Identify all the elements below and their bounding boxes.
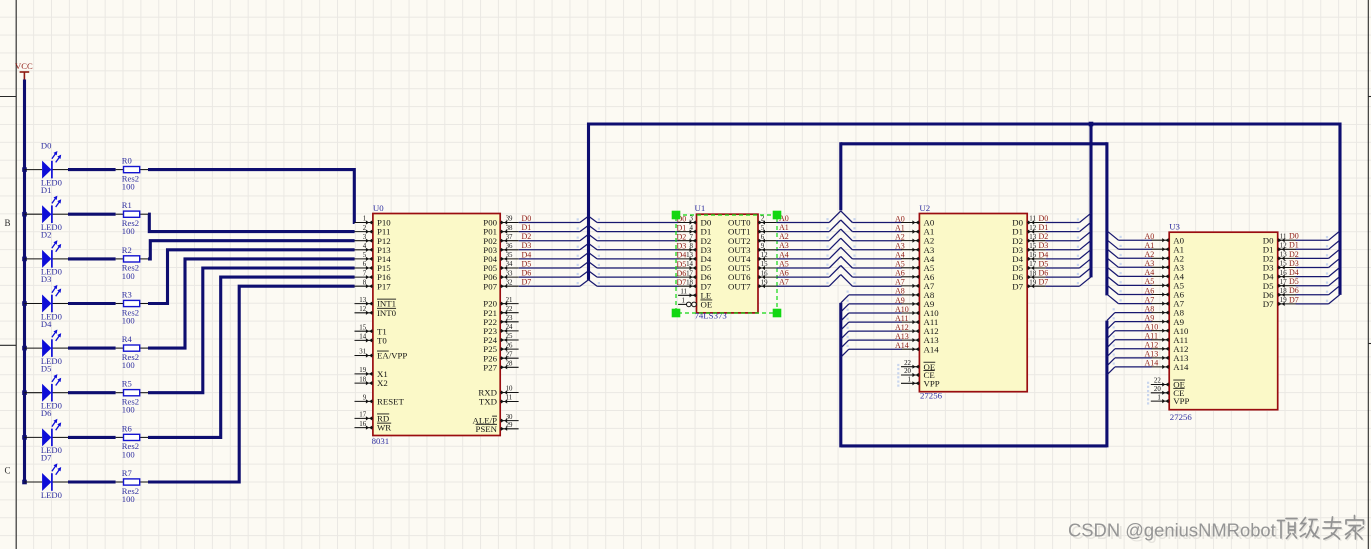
svg-text:VPP: VPP <box>1173 396 1189 406</box>
svg-text:2: 2 <box>761 216 765 223</box>
wire resistor R5 to U0 pin P15 <box>148 268 355 393</box>
svg-text:A14: A14 <box>1173 362 1189 372</box>
wire VCC vertical rail <box>23 80 26 483</box>
wires D0-D7 from U2 to data bus <box>1046 213 1091 286</box>
svg-text:17: 17 <box>686 270 693 277</box>
U2 pins A0-A14 <box>901 218 939 355</box>
svg-text:D1: D1 <box>677 223 687 232</box>
svg-text:D0: D0 <box>1039 214 1049 223</box>
svg-text:A2: A2 <box>779 232 789 241</box>
bus wire A0-A14 left vertical lower <box>839 303 842 448</box>
svg-text:20: 20 <box>1154 386 1161 393</box>
svg-text:A6: A6 <box>779 269 789 278</box>
svg-text:D3: D3 <box>41 274 52 284</box>
svg-text:D6: D6 <box>1039 269 1049 278</box>
U2 value 27256 <box>920 391 943 401</box>
svg-text:36: 36 <box>506 243 513 250</box>
resistor R3 (Res2 100) <box>116 289 148 325</box>
svg-text:6: 6 <box>761 234 765 241</box>
svg-text:1: 1 <box>1157 394 1161 401</box>
svg-text:22: 22 <box>506 306 513 313</box>
svg-text:WR: WR <box>377 423 391 433</box>
svg-text:D7: D7 <box>1039 278 1049 287</box>
bus wire D0-D7 vertical at U3 <box>1338 123 1341 295</box>
bus wire A0-A14 left vertical upper <box>839 142 842 210</box>
svg-text:A7: A7 <box>895 278 905 287</box>
svg-text:D7: D7 <box>41 453 52 463</box>
U0 control pins INT1 INT0 T1 T0 EA/VPP X1 X2 RESET RD WR <box>355 297 408 433</box>
latch U1 74LS373 body <box>697 214 759 313</box>
U2 pins OE CE VPP <box>897 360 940 389</box>
wire resistor R2 to U0 pin P12 <box>148 241 355 259</box>
svg-text:D5: D5 <box>1039 259 1049 268</box>
LED D3 (LED0) <box>25 274 69 321</box>
svg-text:18: 18 <box>1280 288 1287 295</box>
svg-text:12: 12 <box>359 306 366 313</box>
U2 designator <box>919 203 930 213</box>
svg-text:D3: D3 <box>1039 241 1049 250</box>
svg-text:6: 6 <box>363 261 367 268</box>
net labels A0-A14 at U2 <box>895 214 909 350</box>
svg-text:R5: R5 <box>122 379 132 389</box>
svg-text:D4: D4 <box>1039 250 1049 259</box>
bus wire A0-A14 bottom <box>841 444 1107 447</box>
svg-text:A1: A1 <box>895 223 905 232</box>
svg-text:74LS373: 74LS373 <box>695 311 728 321</box>
svg-text:D7: D7 <box>677 278 687 287</box>
U0 pins 39-32 P00-P07 <box>483 216 518 292</box>
svg-text:33: 33 <box>506 270 513 277</box>
svg-text:34: 34 <box>506 261 513 268</box>
svg-text:D5: D5 <box>522 259 532 268</box>
svg-text:R7: R7 <box>122 468 133 478</box>
LED D6 (LED0) <box>25 408 69 455</box>
net labels D0-D7 at U3 <box>1289 232 1299 305</box>
svg-text:R0: R0 <box>122 156 132 166</box>
LED D2 (LED0) <box>25 230 69 277</box>
wires A0-A7 from address bus to U3 <box>1107 231 1152 304</box>
junction dots on VCC rail <box>22 167 27 484</box>
net labels A0-A14 at U3 <box>1145 232 1159 368</box>
svg-text:13: 13 <box>359 297 366 304</box>
wire resistor R7 to U0 pin P17 <box>148 286 355 482</box>
resistor R6 (Res2 100) <box>116 423 148 459</box>
svg-text:19: 19 <box>1029 279 1036 286</box>
wire LED D0 cathode to resistor R0 <box>68 168 116 171</box>
svg-text:U2: U2 <box>919 203 930 213</box>
svg-text:D0: D0 <box>522 214 532 223</box>
wire LED D4 cathode to resistor R4 <box>68 347 116 350</box>
U0 pins RXD TXD ALE/P PSEN <box>473 386 519 434</box>
U0 pins 21-28 P20-P27 <box>483 297 518 373</box>
svg-text:13: 13 <box>1029 234 1036 241</box>
wires A8-A14 from address bus to U3 <box>1107 308 1152 375</box>
svg-text:R3: R3 <box>122 289 132 299</box>
svg-text:100: 100 <box>122 494 135 504</box>
svg-text:D6: D6 <box>677 269 687 278</box>
svg-text:23: 23 <box>506 315 513 322</box>
svg-text:D6: D6 <box>522 269 532 278</box>
svg-text:13: 13 <box>686 252 693 259</box>
svg-text:P27: P27 <box>483 362 497 372</box>
svg-text:C: C <box>5 466 11 476</box>
junction data bus at U2 branch <box>1089 122 1094 127</box>
svg-text:A5: A5 <box>779 259 789 268</box>
svg-text:D1: D1 <box>41 185 52 195</box>
svg-text:A14: A14 <box>924 344 940 354</box>
wires A8-A14 from address bus to U2 <box>841 291 902 358</box>
svg-text:22: 22 <box>904 360 911 367</box>
svg-text:24: 24 <box>506 324 513 331</box>
svg-text:29: 29 <box>506 422 513 429</box>
bus wire A0-A14 right vertical upper <box>1105 142 1108 295</box>
svg-text:11: 11 <box>506 395 513 402</box>
U1 pins LE and OE <box>678 289 712 310</box>
svg-text:A3: A3 <box>895 242 905 251</box>
svg-text:25: 25 <box>506 333 513 340</box>
svg-text:18: 18 <box>1029 270 1036 277</box>
eprom U2 27256 body <box>919 214 1027 392</box>
svg-text:P17: P17 <box>377 281 391 291</box>
svg-text:1: 1 <box>682 298 686 305</box>
svg-text:17: 17 <box>1029 261 1036 268</box>
svg-text:R2: R2 <box>122 245 132 255</box>
LED D4 (LED0) <box>25 319 69 366</box>
svg-text:35: 35 <box>506 252 513 259</box>
resistor R1 (Res2 100) <box>116 200 148 236</box>
wires A0-A7 from U1 outputs across address bus to U2 <box>776 211 901 286</box>
svg-text:20: 20 <box>904 368 911 375</box>
svg-text:D5: D5 <box>677 260 687 269</box>
wire resistor R0 to U0 pin P10 <box>148 170 355 223</box>
svg-text:D4: D4 <box>1289 268 1299 277</box>
resistor R5 (Res2 100) <box>116 379 148 415</box>
svg-text:D2: D2 <box>522 232 532 241</box>
bus wire A0-A14 right vertical lower <box>1105 321 1108 448</box>
svg-text:OUT7: OUT7 <box>728 281 751 291</box>
svg-text:16: 16 <box>1280 270 1287 277</box>
svg-text:100: 100 <box>122 182 135 192</box>
svg-text:D7: D7 <box>1012 281 1023 291</box>
svg-text:U3: U3 <box>1169 222 1180 232</box>
LED D7 (LED0) <box>25 453 69 500</box>
U1 designator <box>695 203 706 213</box>
svg-text:A0: A0 <box>895 214 905 223</box>
svg-text:18: 18 <box>686 279 693 286</box>
watermark chinese characters ding ji zhuan jia <box>1278 516 1365 541</box>
svg-text:D1: D1 <box>1039 223 1049 232</box>
svg-text:17: 17 <box>359 412 366 419</box>
svg-text:13: 13 <box>1280 252 1287 259</box>
svg-text:11: 11 <box>1029 216 1036 223</box>
svg-text:12: 12 <box>1280 243 1287 250</box>
svg-text:100: 100 <box>122 449 135 459</box>
svg-text:D6: D6 <box>41 408 52 418</box>
svg-text:31: 31 <box>359 349 366 356</box>
net labels A0-A7 at U1 outputs <box>779 214 789 287</box>
net labels D0-D7 at U2 <box>1039 214 1049 287</box>
svg-text:2: 2 <box>363 225 367 232</box>
svg-text:P07: P07 <box>483 281 497 291</box>
svg-text:8031: 8031 <box>372 436 390 446</box>
svg-text:26: 26 <box>506 342 513 349</box>
wire LED D5 cathode to resistor R5 <box>68 391 116 394</box>
svg-text:17: 17 <box>1280 279 1287 286</box>
watermark CSDN @geniusNMRobot <box>1068 520 1279 544</box>
svg-text:3: 3 <box>363 234 367 241</box>
wire LED D6 cathode to resistor R6 <box>68 436 116 439</box>
svg-text:16: 16 <box>1029 252 1036 259</box>
U2 pins D0-D7 <box>1012 216 1045 292</box>
svg-text:INT0: INT0 <box>377 308 397 318</box>
svg-text:A2: A2 <box>895 232 905 241</box>
net labels D0-D7 at U1 inputs <box>677 214 687 287</box>
mcu U0 8031 body <box>373 214 500 436</box>
svg-text:VCC: VCC <box>15 61 33 71</box>
svg-text:D0: D0 <box>41 140 52 150</box>
svg-text:15: 15 <box>359 324 366 331</box>
svg-text:8: 8 <box>690 243 694 250</box>
svg-text:A6: A6 <box>895 269 905 278</box>
svg-text:3: 3 <box>690 216 694 223</box>
svg-text:19: 19 <box>761 279 768 286</box>
svg-text:RESET: RESET <box>377 397 405 407</box>
svg-text:D0: D0 <box>1289 232 1299 241</box>
eprom U3 27256 body <box>1169 232 1278 410</box>
svg-text:15: 15 <box>1029 243 1036 250</box>
resistor R7 (Res2 100) <box>116 468 148 504</box>
LED D5 (LED0) <box>25 363 69 410</box>
svg-text:D4: D4 <box>677 251 687 260</box>
svg-text:D6: D6 <box>1289 286 1299 295</box>
resistor R0 (Res2 100) <box>116 156 148 192</box>
svg-text:30: 30 <box>506 414 513 421</box>
svg-text:100: 100 <box>122 226 135 236</box>
svg-text:D4: D4 <box>41 319 52 329</box>
svg-text:T0: T0 <box>377 336 387 346</box>
svg-text:9: 9 <box>363 395 367 402</box>
svg-text:D2: D2 <box>1289 250 1299 259</box>
svg-text:D7: D7 <box>1263 299 1274 309</box>
svg-text:1: 1 <box>908 377 912 384</box>
svg-text:12: 12 <box>761 252 768 259</box>
svg-text:A4: A4 <box>779 250 789 259</box>
svg-text:PSEN: PSEN <box>475 424 497 434</box>
svg-text:A1: A1 <box>779 223 789 232</box>
svg-text:D7: D7 <box>522 278 532 287</box>
svg-text:A7: A7 <box>779 278 789 287</box>
svg-text:16: 16 <box>761 270 768 277</box>
svg-text:14: 14 <box>359 334 366 341</box>
U3 designator <box>1169 222 1180 232</box>
bus wire D0-D7 horizontal top <box>589 122 1341 125</box>
svg-text:18: 18 <box>359 376 366 383</box>
wire LED D1 cathode to resistor R1 <box>68 213 116 216</box>
svg-text:R1: R1 <box>122 200 132 210</box>
svg-text:32: 32 <box>506 279 513 286</box>
svg-text:1: 1 <box>363 216 367 223</box>
U3 pins OE CE VPP <box>1147 378 1190 407</box>
svg-text:22: 22 <box>1154 378 1161 385</box>
U3 pins D0-D7 <box>1263 233 1296 309</box>
U3 value 27256 <box>1170 412 1193 422</box>
resistor R2 (Res2 100) <box>116 245 148 281</box>
LED D0 (LED0) <box>25 140 69 187</box>
svg-text:19: 19 <box>1280 297 1287 304</box>
compile marks at address bus tents <box>826 218 855 284</box>
svg-text:D1: D1 <box>522 223 532 232</box>
svg-text:CSDN @geniusNMRobot: CSDN @geniusNMRobot <box>1068 520 1276 541</box>
svg-text:15: 15 <box>1280 261 1287 268</box>
wire resistor R1 to U0 pin P11 <box>148 214 355 231</box>
svg-text:A3: A3 <box>779 241 789 250</box>
U0 value 8031 <box>372 436 390 446</box>
svg-text:9: 9 <box>761 243 765 250</box>
svg-text:10: 10 <box>506 386 513 393</box>
svg-text:21: 21 <box>506 297 513 304</box>
net labels D0-D7 at U0 port0 <box>522 214 532 287</box>
svg-text:D1: D1 <box>1289 241 1299 250</box>
svg-text:D7: D7 <box>1289 295 1299 304</box>
svg-text:27: 27 <box>506 351 513 358</box>
bus wire A0-A14 top <box>841 142 1107 145</box>
wire LED D7 cathode to resistor R7 <box>68 480 116 483</box>
svg-text:16: 16 <box>359 421 366 428</box>
svg-text:D2: D2 <box>677 233 687 242</box>
svg-text:D5: D5 <box>41 363 52 373</box>
U0 designator <box>373 203 384 213</box>
svg-text:OE: OE <box>701 300 713 310</box>
resistor R4 (Res2 100) <box>116 334 148 370</box>
U0 pins 1-8 P10-P17 <box>355 216 392 292</box>
svg-text:D3: D3 <box>1289 259 1299 268</box>
svg-text:R4: R4 <box>122 334 133 344</box>
U3 pins A0-A14 <box>1151 235 1189 372</box>
svg-text:U0: U0 <box>373 203 384 213</box>
svg-text:39: 39 <box>506 216 513 223</box>
svg-text:11: 11 <box>680 289 687 296</box>
svg-text:100: 100 <box>122 405 135 415</box>
wires data bus entries to U1 D inputs <box>589 216 679 286</box>
svg-text:19: 19 <box>359 367 366 374</box>
svg-text:7: 7 <box>363 270 367 277</box>
svg-text:D4: D4 <box>522 250 532 259</box>
svg-text:5: 5 <box>761 225 765 232</box>
power port VCC <box>15 61 33 80</box>
U1 pins D0-D7 <box>678 216 712 292</box>
selection highlight around U1 <box>672 211 782 318</box>
svg-text:27256: 27256 <box>920 391 943 401</box>
U1 value 74LS373 <box>695 311 728 321</box>
wires D0-D7 from U0 port0 to data bus entries <box>519 216 589 286</box>
svg-text:15: 15 <box>761 261 768 268</box>
svg-text:12: 12 <box>1029 225 1036 232</box>
svg-text:D2: D2 <box>41 230 52 240</box>
svg-text:B: B <box>5 218 11 228</box>
svg-text:4: 4 <box>690 225 694 232</box>
svg-text:27256: 27256 <box>1170 412 1193 422</box>
svg-text:LED0: LED0 <box>41 490 62 500</box>
svg-text:11: 11 <box>1280 233 1287 240</box>
svg-text:A5: A5 <box>895 260 905 269</box>
svg-text:28: 28 <box>506 361 513 368</box>
wires D0-D7 from U3 to data bus <box>1296 231 1340 304</box>
svg-text:VPP: VPP <box>924 378 940 388</box>
svg-text:100: 100 <box>122 271 135 281</box>
svg-text:A4: A4 <box>895 251 905 260</box>
svg-text:D3: D3 <box>522 241 532 250</box>
LED D1 (LED0) <box>25 185 69 232</box>
svg-text:D5: D5 <box>1289 277 1299 286</box>
svg-text:100: 100 <box>122 360 135 370</box>
svg-text:U1: U1 <box>695 203 706 213</box>
wire resistor R6 to U0 pin P16 <box>148 277 355 437</box>
svg-text:D3: D3 <box>677 242 687 251</box>
svg-text:37: 37 <box>506 234 513 241</box>
bus wire D0-D7 vertical at U2 <box>1089 124 1092 277</box>
svg-text:R6: R6 <box>122 423 133 433</box>
svg-text:38: 38 <box>506 225 513 232</box>
svg-text:D2: D2 <box>1039 232 1049 241</box>
svg-text:4: 4 <box>363 243 367 250</box>
U1 pins OUT0-OUT7 <box>728 216 776 292</box>
svg-text:EA/VPP: EA/VPP <box>377 351 407 361</box>
bus wire D0-D7 vertical at U1 <box>587 123 590 280</box>
svg-text:TXD: TXD <box>479 397 497 407</box>
wire resistor R3 to U0 pin P13 <box>148 250 355 304</box>
compile marks at bus entries (U0-U1) <box>577 218 600 284</box>
wire LED D3 cathode to resistor R3 <box>68 302 116 305</box>
svg-text:8: 8 <box>363 279 367 286</box>
svg-text:14: 14 <box>686 261 693 268</box>
wire resistor R4 to U0 pin P14 <box>148 259 355 348</box>
svg-text:X2: X2 <box>377 378 388 388</box>
svg-text:7: 7 <box>690 234 694 241</box>
svg-text:5: 5 <box>363 252 367 259</box>
wire LED D2 cathode to resistor R2 <box>68 257 116 260</box>
svg-text:100: 100 <box>122 315 135 325</box>
